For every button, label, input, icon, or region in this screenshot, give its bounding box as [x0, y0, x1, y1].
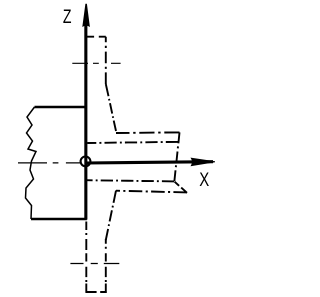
svg-text:X: X	[199, 169, 209, 191]
svg-text:Z: Z	[63, 7, 72, 28]
